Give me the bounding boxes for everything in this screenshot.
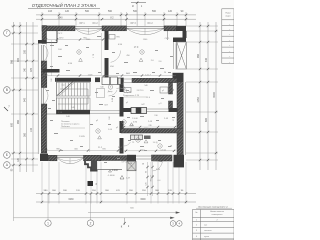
interior wall V1 lower	[105, 58, 109, 78]
section mark 2 bottom	[124, 218, 126, 225]
top exterior wall segment middle	[102, 26, 127, 31]
svg-text:Экспликация помещений 2 эт: Экспликация помещений 2 эт	[198, 205, 228, 208]
bottom wall middle (hatched)	[101, 156, 127, 161]
bottom wall west	[48, 155, 57, 161]
bottom-right schedule table	[193, 210, 235, 240]
terrace dim cluster below SE door	[147, 162, 149, 196]
black square mark	[88, 181, 94, 186]
svg-text:24 23 0: 24 23 0	[137, 90, 145, 92]
interior wall H3 west	[124, 108, 132, 112]
interior wall H1 west stub	[95, 78, 100, 83]
bottom pier block	[127, 155, 136, 161]
svg-text:690: 690	[205, 117, 208, 122]
level triangle	[120, 176, 124, 180]
interior dim line top-left room	[45, 39, 104, 41]
axis circle G	[4, 30, 11, 37]
svg-text:580: 580	[11, 59, 14, 64]
svg-text:ОР 3: ОР 3	[130, 23, 136, 25]
room number circles	[77, 50, 81, 54]
window OP3 opening (top)	[127, 26, 165, 28]
bottom wall east	[152, 155, 173, 161]
interior wall V2	[120, 85, 124, 92]
svg-text:1250: 1250	[197, 97, 200, 103]
SW corner block	[40, 154, 48, 161]
right-top finish table	[222, 9, 234, 64]
interior wall H2 (hatched)	[121, 129, 183, 134]
top dimension chain lines	[36, 14, 196, 16]
svg-text:6000: 6000	[140, 199, 146, 201]
svg-text:300: 300	[24, 49, 27, 54]
stair arrow	[58, 89, 88, 104]
svg-text:ОТДЕЛОЧНЫЙ ПЛАН 2 ЭТАЖА: ОТДЕЛОЧНЫЙ ПЛАН 2 ЭТАЖА	[32, 3, 97, 8]
axis circle B	[4, 152, 11, 159]
svg-text:2: 2	[90, 221, 92, 225]
svg-text:560: 560	[152, 10, 157, 13]
svg-text:940: 940	[24, 97, 27, 102]
svg-text:1.6 Д: 1.6 Д	[160, 150, 166, 152]
svg-text:кухня: кухня	[204, 236, 209, 238]
vent block 2	[131, 108, 147, 114]
left dimension chain lines	[13, 22, 15, 172]
stair upper wall	[55, 78, 91, 82]
bay window with X cross (balcony door)	[177, 42, 187, 69]
right wall upper (bay)	[183, 31, 187, 38]
fixture marks top-right room	[160, 87, 168, 93]
svg-text:17.9: 17.9	[134, 47, 139, 49]
svg-text:1040: 1040	[57, 17, 63, 19]
svg-text:ОР 4: ОР 4	[122, 161, 128, 163]
section mark K1 top	[131, 2, 146, 4]
interior dim line bottom-right rooms	[124, 150, 176, 152]
svg-text:9200: 9200	[213, 92, 216, 98]
svg-text:Наим: Наим	[225, 13, 231, 15]
top-left jog	[38, 40, 47, 44]
top exterior wall segment west	[42, 26, 75, 31]
interior wall V3	[169, 83, 173, 94]
svg-text:отдел: отдел	[225, 16, 231, 18]
interior wall V1 upper	[105, 31, 109, 50]
bottom door opening	[136, 155, 152, 157]
radiator top-right room	[109, 35, 115, 40]
svg-text:120: 120	[168, 10, 173, 13]
svg-text:13.85: 13.85	[79, 136, 85, 138]
axis circle A	[4, 162, 11, 169]
left wall window 2	[41, 88, 43, 105]
window OP1 opening (top)	[75, 26, 102, 28]
top exterior wall segment east	[164, 26, 177, 31]
left wall outer contour line	[37, 44, 39, 155]
svg-text:ОР 1: ОР 1	[79, 23, 85, 25]
right exterior wall	[177, 82, 183, 155]
svg-text:ОС 2: ОС 2	[147, 23, 153, 25]
svg-text:140: 140	[30, 127, 33, 132]
svg-text:Раздевалка 1.78: Раздевалка 1.78	[123, 95, 140, 97]
svg-text:Наименование: Наименование	[210, 211, 225, 213]
closet/fixture cells row	[102, 77, 110, 85]
svg-text:500: 500	[85, 10, 90, 13]
interior dim vertical top rooms	[101, 33, 103, 75]
svg-text:920: 920	[17, 57, 20, 62]
left exterior wall band lower	[41, 104, 47, 153]
svg-text:120: 120	[65, 10, 70, 13]
svg-text:13.40: 13.40	[132, 118, 138, 120]
staircase upper flight treads	[57, 83, 91, 97]
right dimension chain lines	[199, 22, 201, 170]
svg-text:980: 980	[17, 119, 20, 124]
door opening in H1	[124, 78, 132, 80]
top-right corner block	[176, 26, 186, 31]
right jog wall	[173, 38, 186, 43]
svg-text:600: 600	[11, 122, 14, 127]
small section mark left	[4, 107, 8, 111]
fixtures bottom-right room	[131, 135, 143, 140]
pier descender window glyph	[127, 161, 136, 171]
interior dim line across upper rooms	[44, 75, 176, 77]
svg-text:ОС 2: ОС 2	[92, 23, 98, 25]
bottom window opening	[57, 155, 84, 157]
svg-text:помещения: помещения	[212, 214, 223, 216]
svg-text:Побелка: Побелка	[61, 126, 70, 128]
svg-text:1: 1	[47, 221, 49, 225]
corner block right middle	[173, 73, 184, 82]
clutter dashes to emulate tiny annotations	[50, 45, 54, 46]
left exterior wall band upper	[41, 61, 47, 88]
V2 door arcs	[116, 88, 127, 93]
H3 door opening	[147, 108, 169, 110]
svg-text:960: 960	[197, 53, 200, 58]
closet partition top-left	[43, 42, 57, 44]
axis leader stubs to circles	[47, 194, 49, 220]
stair bottom wall	[56, 110, 90, 114]
interior dim line bottom-left room	[89, 114, 91, 152]
bottom wall west2	[84, 155, 102, 161]
bottom axis line and circles	[14, 217, 172, 219]
interior wall H1 east (hatched)	[132, 78, 177, 82]
svg-text:360: 360	[24, 132, 27, 137]
wall stub left	[43, 69, 60, 73]
svg-text:Г: Г	[6, 31, 8, 35]
exterior door arc SE	[153, 162, 163, 171]
interior dim vertical top-left room	[50, 40, 52, 76]
svg-text:103: 103	[48, 10, 53, 13]
svg-text:400: 400	[205, 57, 208, 62]
svg-text:спальня: спальня	[204, 230, 212, 232]
porch side wall and steps	[91, 161, 97, 170]
svg-text:-1.4000: -1.4000	[107, 175, 115, 177]
bottom dimension chains	[36, 193, 196, 195]
door arc V1	[111, 51, 121, 63]
left wall window 1	[41, 45, 43, 61]
SE corner block	[174, 155, 185, 168]
svg-text:0.000: 0.000	[112, 170, 118, 172]
svg-text:070: 070	[30, 67, 33, 72]
axis circle V	[4, 87, 11, 94]
dim line above H2	[122, 126, 177, 128]
staircase lower flight treads	[57, 98, 91, 110]
svg-text:560: 560	[108, 10, 113, 13]
stair break line	[57, 82, 73, 96]
top-left corner vertical wall	[42, 26, 47, 44]
svg-text:6230: 6230	[68, 199, 74, 201]
svg-text:1.6 Д: 1.6 Д	[153, 142, 158, 144]
interior wall H3 east	[169, 108, 178, 112]
right wall outer contour	[184, 82, 186, 155]
door arcs corridor	[109, 90, 118, 96]
